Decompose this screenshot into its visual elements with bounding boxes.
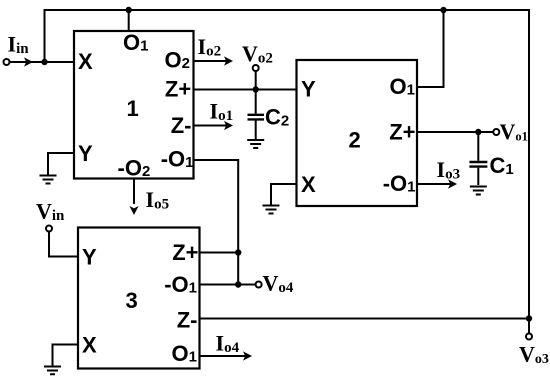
wire -O2 stub of block 1 (Io5 arrow) (133, 179, 135, 205)
svg-text:Z+: Z+ (165, 77, 191, 102)
wire Z+ of block 3 (200, 252, 239, 254)
svg-text:O1: O1 (390, 74, 415, 99)
arrowhead Io2 (224, 56, 233, 65)
svg-text:C2: C2 (265, 105, 289, 130)
svg-text:-O2: -O2 (118, 156, 151, 181)
svg-text:1: 1 (127, 96, 139, 121)
svg-text:O1: O1 (123, 30, 148, 55)
svg-text:Iin: Iin (8, 32, 30, 58)
svg-text:Vo2: Vo2 (242, 41, 273, 67)
wire Vin to Y of block 3 (49, 232, 78, 257)
svg-text:Io5: Io5 (146, 187, 170, 213)
junction dot at Z-/right rail (526, 315, 532, 321)
junction dot top rail at O1 of block 2 (440, 7, 446, 13)
svg-text:O1: O1 (172, 341, 197, 366)
junction dot at Iin/X (41, 59, 47, 65)
block 2 (297, 60, 418, 206)
ground at Y of block 1 (40, 176, 57, 184)
wire X of block 2 to ground (271, 184, 297, 205)
svg-text:2: 2 (349, 128, 361, 153)
ground at C2 (247, 140, 264, 148)
wire top rail and right rail to Vo3 (45, 10, 530, 334)
terminal circle Vo4 (256, 282, 262, 288)
wire -O1 of block 3 to Vo4 (200, 284, 256, 286)
terminal circle Vo1 (493, 129, 499, 135)
junction dot top rail at O1 of block 1 (126, 7, 132, 13)
svg-text:X: X (301, 172, 316, 197)
ground at X of block 2 (263, 206, 280, 214)
svg-text:X: X (78, 49, 93, 74)
arrowhead Io1 (224, 121, 233, 130)
svg-text:X: X (82, 332, 97, 357)
wire O1 of block 2 up to top rail (417, 10, 444, 87)
svg-text:Vo1: Vo1 (500, 119, 528, 144)
junction dot at -O1 of block 3 (235, 281, 241, 287)
terminal circle Vo2 (253, 65, 259, 71)
wire Z+ of block 1 to Y of block 2 (194, 89, 297, 91)
terminal circle Vo3 (526, 334, 532, 340)
terminal circle Iin (4, 59, 10, 65)
wire O2 stub of block 1 (Io2) (194, 60, 228, 62)
junction dot at Vo2/C2 (253, 86, 259, 92)
junction dot at Z+ of block 3 (235, 249, 241, 255)
arrowhead Io5 (129, 206, 138, 215)
wire O1 stub top of block 1 (128, 10, 130, 31)
arrowhead Io3 (448, 179, 457, 188)
block 3 (78, 228, 200, 369)
ground at X of block 3 (44, 367, 61, 375)
svg-text:Y: Y (78, 141, 93, 166)
svg-text:Io2: Io2 (198, 34, 222, 60)
wire Vo2 node drop (255, 71, 257, 90)
block 1 (74, 31, 194, 179)
svg-text:O2: O2 (165, 48, 190, 73)
svg-text:Z+: Z+ (172, 240, 198, 265)
svg-text:-O1: -O1 (164, 272, 197, 297)
svg-text:Io4: Io4 (216, 331, 240, 357)
arrowhead Io4 (243, 351, 252, 360)
ground at C1 (470, 187, 487, 195)
wire Z- of block 3 to right rail (200, 318, 530, 320)
svg-text:Io3: Io3 (437, 157, 461, 183)
terminal circle Vin (46, 226, 52, 232)
arrowhead Iin (24, 57, 33, 66)
wire -O1 stub of block 2 (Io3) (417, 183, 451, 185)
svg-text:Z-: Z- (177, 308, 198, 333)
wire Iin input to X of block 1 (10, 61, 75, 63)
svg-text:Z+: Z+ (389, 120, 415, 145)
svg-text:-O1: -O1 (383, 171, 416, 196)
svg-text:Vo4: Vo4 (263, 271, 294, 297)
svg-text:3: 3 (126, 288, 138, 313)
svg-text:Vin: Vin (36, 199, 65, 225)
wire Y of block 1 to ground (48, 153, 74, 175)
svg-text:Io1: Io1 (210, 98, 234, 124)
capacitor C1 (477, 132, 479, 161)
svg-text:Y: Y (301, 76, 316, 101)
svg-text:Z-: Z- (171, 113, 192, 138)
wire Z- stub of block 1 (Io1) (194, 125, 228, 127)
svg-text:Y: Y (82, 244, 97, 269)
svg-text:Vo3: Vo3 (519, 342, 549, 368)
junction dot at Vo1/C1 (475, 129, 481, 135)
wire -O1 of block 1 down to block 3 (194, 160, 239, 285)
wire O1 stub of block 3 (Io4) (200, 355, 246, 357)
svg-text:-O1: -O1 (161, 147, 194, 172)
svg-text:C1: C1 (490, 153, 514, 178)
wire Z+ of block 2 to Vo1 (417, 131, 493, 133)
wire X of block 3 to ground (53, 345, 79, 366)
capacitor C2 (255, 90, 257, 114)
